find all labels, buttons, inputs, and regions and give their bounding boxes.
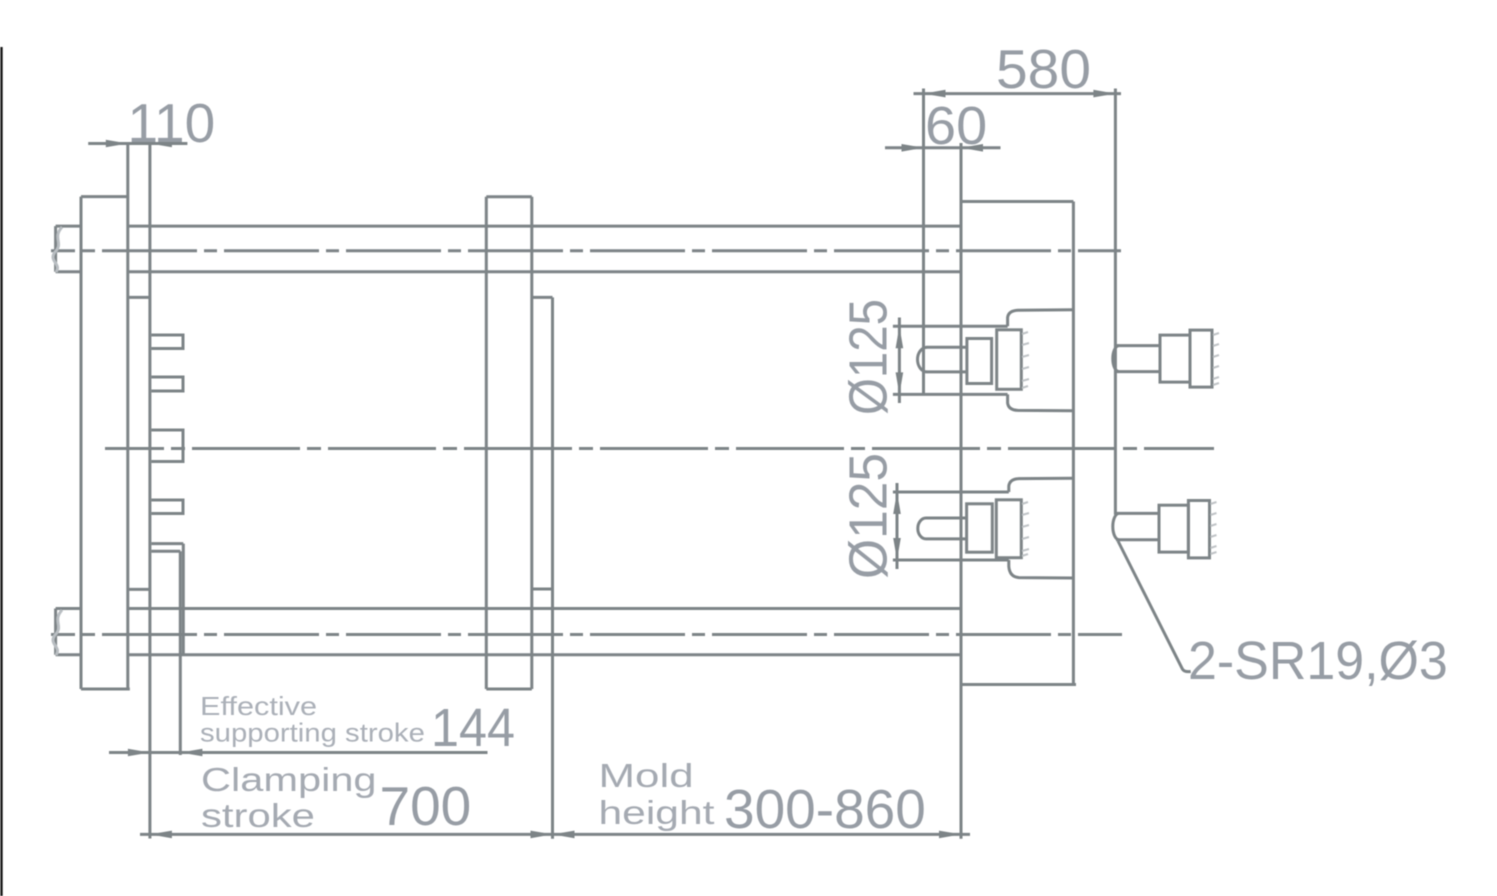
upper bell top bbox=[1008, 310, 1074, 327]
tie bar 1 stub bbox=[56, 226, 81, 272]
break squiggle bottom bbox=[53, 610, 62, 655]
center line tie bar 1 bbox=[51, 249, 1121, 252]
dim line 700 / mold height bbox=[140, 833, 970, 836]
svg-text:Mold: Mold bbox=[599, 758, 694, 795]
mold half left top edge bbox=[128, 296, 150, 299]
shading ticks upper bolt head bbox=[1213, 333, 1219, 385]
svg-text:Ø125: Ø125 bbox=[838, 453, 898, 579]
svg-text:60: 60 bbox=[925, 95, 987, 156]
lower injection unit housing bbox=[893, 492, 1009, 560]
700 arrows bbox=[150, 831, 172, 839]
ejector tooth 4 bbox=[151, 500, 183, 514]
thin rear platen right edge bbox=[148, 144, 151, 839]
tie bar 2 stub bbox=[56, 609, 81, 655]
svg-text:110: 110 bbox=[128, 92, 216, 154]
580 arrows (inside) bbox=[924, 90, 946, 98]
mold half right bbox=[532, 297, 553, 589]
dim line d125 upper bbox=[898, 318, 901, 404]
svg-text:Ø125: Ø125 bbox=[838, 299, 899, 415]
svg-text:supporting stroke: supporting stroke bbox=[200, 718, 425, 747]
mold height extension line bbox=[551, 297, 554, 838]
ejector housing inner right edge / 144 extension bbox=[179, 551, 182, 755]
svg-text:height: height bbox=[599, 795, 715, 831]
shading ticks lower bolt head bbox=[1211, 502, 1217, 554]
tie bar 2 bottom line bbox=[128, 653, 961, 656]
center line tie bar 2 bbox=[51, 633, 1122, 636]
d125 upper arrows bbox=[896, 326, 904, 348]
svg-text:580: 580 bbox=[996, 38, 1091, 100]
lower unit body bbox=[996, 500, 1021, 558]
ejector tooth 3 (center) bbox=[151, 430, 183, 462]
dim line 60 bbox=[885, 146, 1001, 149]
dimension texts bbox=[128, 38, 1448, 840]
dim line 580 bbox=[914, 92, 1122, 95]
shading ticks lower body bbox=[1022, 502, 1029, 556]
d125 lower arrows bbox=[893, 492, 901, 514]
thin rear platen left edge bbox=[126, 144, 129, 690]
upper nozzle bolt bbox=[1113, 330, 1212, 387]
shading ticks upper body bbox=[1022, 332, 1219, 556]
mold half left bottom edge bbox=[128, 588, 150, 591]
svg-text:700: 700 bbox=[380, 775, 472, 837]
dim line d125 lower bbox=[896, 483, 899, 569]
leader line 2-SR19 bbox=[1118, 541, 1191, 672]
break squiggle top bbox=[53, 227, 62, 272]
lower bell bottom bbox=[1009, 560, 1074, 578]
stationary platen left face bbox=[960, 143, 963, 839]
stationary platen top bbox=[961, 200, 1073, 203]
rear support plate bbox=[81, 197, 130, 689]
tie bar 1 bottom line bbox=[128, 270, 961, 273]
svg-text:300-860: 300-860 bbox=[724, 778, 926, 840]
svg-text:stroke: stroke bbox=[201, 797, 315, 834]
upper unit flange bbox=[967, 339, 992, 384]
lower bell top bbox=[1009, 478, 1074, 492]
upper unit body bbox=[997, 330, 1022, 390]
stationary platen bottom bbox=[961, 683, 1076, 686]
dim line 144 bbox=[109, 751, 488, 754]
ejector housing outer right edge bbox=[182, 544, 185, 655]
lower unit rod bbox=[918, 518, 967, 539]
144 arrows (outside) bbox=[128, 749, 150, 757]
tie bar 1 top line bbox=[128, 225, 961, 228]
upper injection unit housing bbox=[893, 326, 1008, 394]
svg-text:Clamping: Clamping bbox=[201, 761, 377, 798]
upper bell bottom bbox=[1008, 394, 1074, 410]
580 left extension bbox=[922, 89, 925, 395]
moving platen bbox=[486, 197, 532, 689]
svg-text:2-SR19,Ø3: 2-SR19,Ø3 bbox=[1188, 631, 1448, 691]
60 arrows (outside) bbox=[902, 144, 924, 152]
dim line 110 bbox=[88, 142, 187, 145]
ejector tooth 1 bbox=[151, 335, 183, 349]
580/SR19 extension line bbox=[1114, 89, 1117, 515]
svg-text:Effective: Effective bbox=[200, 692, 317, 721]
ejector tooth 2 bbox=[151, 377, 183, 391]
upper unit rod bbox=[918, 347, 967, 372]
svg-text:144: 144 bbox=[431, 698, 515, 758]
center line machine axis bbox=[105, 447, 1214, 450]
left page border bbox=[0, 47, 2, 896]
arrowheads bbox=[106, 90, 1116, 838]
lower nozzle bolt bbox=[1113, 501, 1210, 558]
tie bar 2 top line bbox=[128, 607, 961, 610]
lower unit flange bbox=[967, 504, 993, 552]
stationary platen right face bbox=[1072, 202, 1075, 685]
ejector housing top flange bbox=[151, 542, 183, 545]
110 arrows (outside) bbox=[106, 140, 128, 148]
